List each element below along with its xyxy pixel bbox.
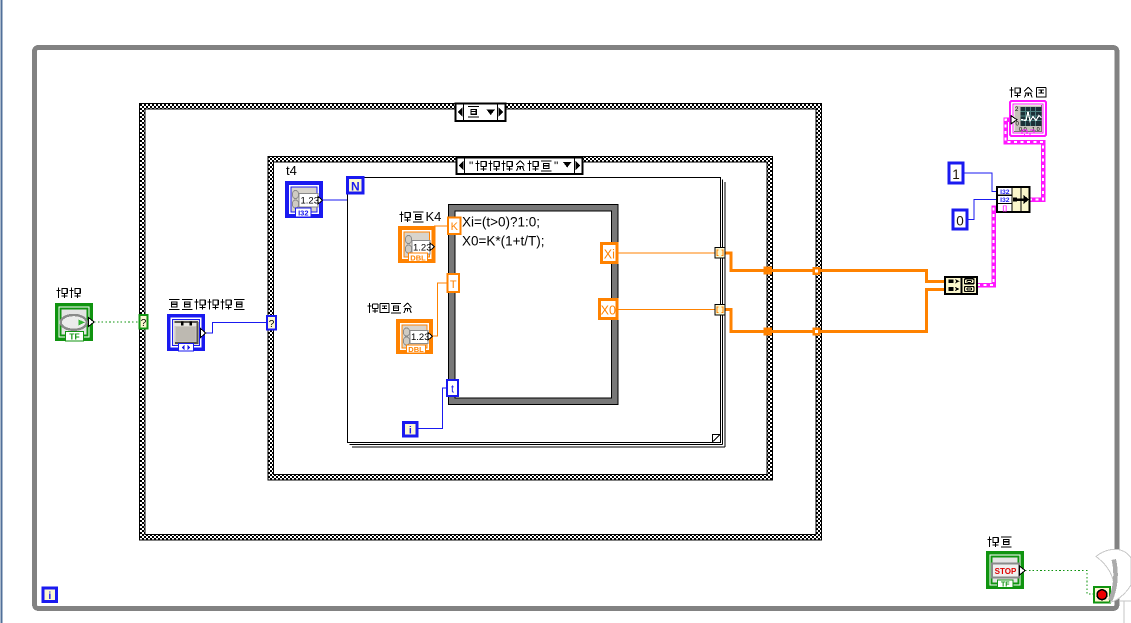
wire: X0 array to build node (orange thick) <box>724 290 945 332</box>
formula node input T <box>448 274 460 292</box>
wire: build node to bundle (magenta dashed) <box>977 208 997 286</box>
formula node output Xi <box>602 244 618 263</box>
formula node frame <box>448 204 619 405</box>
svg-text:K: K <box>451 221 459 233</box>
wire: Xi terminal to for loop tunnel (orange) <box>617 252 715 254</box>
svg-text:i: i <box>48 590 51 602</box>
tunnel [] on for loop (X0) <box>715 305 725 316</box>
wire: stop button to conditional terminal (green dotted) <box>1025 571 1094 595</box>
svg-text:i: i <box>409 425 412 437</box>
wire: Xi array to build node (orange thick) <box>724 253 945 282</box>
case selector label (true) <box>456 104 506 122</box>
svg-text:I32: I32 <box>298 209 308 218</box>
numeric control t4 (I32) <box>285 181 323 218</box>
while loop conditional terminal (stop if true) <box>1094 587 1110 603</box>
svg-text:0: 0 <box>956 214 964 229</box>
svg-text:": " <box>554 159 558 173</box>
boolean control run <box>55 303 94 342</box>
build array node <box>945 277 977 294</box>
for loop iteration terminal i <box>404 423 418 437</box>
while loop iteration terminal i <box>43 588 57 602</box>
label gain K4 <box>400 209 442 224</box>
constant 0 <box>953 210 967 229</box>
wire: constant 1 to bundle (blue) <box>963 173 997 192</box>
formula node code text <box>462 215 545 249</box>
svg-text:[]: [] <box>1003 205 1008 212</box>
for loop count terminal N <box>348 178 364 194</box>
selector tunnel ? on inner case <box>267 316 276 330</box>
svg-text:1.23: 1.23 <box>413 243 432 254</box>
svg-text:t4: t4 <box>286 163 297 178</box>
for loop folded corner <box>713 435 721 443</box>
formula node input t <box>447 380 458 396</box>
wire: X0 terminal to for loop tunnel (orange) <box>617 309 715 311</box>
numeric control gain K4 (DBL) <box>398 226 436 263</box>
svg-text:1.23: 1.23 <box>301 196 320 207</box>
bundle node <box>997 187 1030 212</box>
tunnel [] on for loop (Xi) <box>715 248 725 259</box>
wire: enum control to inner case tunnel (blue) <box>206 323 268 334</box>
svg-text:Xi: Xi <box>604 248 615 262</box>
formula node output X0 <box>600 300 618 319</box>
window corner page curl <box>1096 549 1131 623</box>
svg-text:?: ? <box>269 319 275 330</box>
svg-text:STOP: STOP <box>995 567 1017 576</box>
wire: gain K4 to K terminal (orange) <box>434 225 448 227</box>
wire: time constant to T terminal (orange) <box>433 283 448 336</box>
svg-text:Xi=(t>0)?1:0;: Xi=(t>0)?1:0; <box>462 215 540 230</box>
wire: i terminal to t terminal (blue) <box>417 388 447 429</box>
enum control typical linear element <box>167 314 206 351</box>
window left edge line <box>1 0 3 623</box>
selector tunnel ? on outer case <box>140 315 148 329</box>
wire: t4 to for loop N border (blue) <box>323 199 348 201</box>
for loop frame <box>348 178 726 448</box>
tunnel solid on inner case (Xi) <box>764 267 773 275</box>
svg-text:N: N <box>351 180 360 194</box>
svg-text:1.23: 1.23 <box>411 332 430 343</box>
svg-text:DBL: DBL <box>408 345 424 354</box>
tunnel hollow on outer case (X0) <box>813 328 821 336</box>
wire: bundle to waveform graph (magenta dashed) <box>1006 120 1044 200</box>
case structure outer (true case) border <box>139 103 822 541</box>
label waveform graph <box>1010 87 1046 97</box>
svg-text:t: t <box>451 384 454 396</box>
wire: run button to outer case tunnel (green dotted) <box>94 321 139 323</box>
wire: constant 0 to bundle (blue) <box>967 200 997 220</box>
svg-text:TF: TF <box>1001 582 1010 589</box>
svg-text:I32: I32 <box>1000 189 1010 196</box>
svg-text:T: T <box>450 279 457 291</box>
numeric control time constant (DBL) <box>396 319 433 354</box>
constant 1 <box>949 163 963 183</box>
svg-text:": " <box>469 159 473 173</box>
label enum control <box>169 299 244 309</box>
formula node input K <box>448 218 461 235</box>
svg-text:K4: K4 <box>426 209 442 224</box>
waveform graph terminal <box>1010 101 1046 136</box>
boolean control stop <box>986 551 1025 589</box>
svg-text:DBL: DBL <box>410 254 426 263</box>
svg-text:1: 1 <box>952 167 960 182</box>
svg-text:TF: TF <box>69 332 79 342</box>
tunnel solid on inner case (X0) <box>764 328 773 336</box>
case structure inner (linear element case) border <box>268 156 774 481</box>
svg-text:?: ? <box>141 318 147 329</box>
svg-text:X0=K*(1+t/T);: X0=K*(1+t/T); <box>462 234 545 249</box>
tunnel hollow on outer case (Xi) <box>813 267 821 275</box>
label time constant <box>368 303 412 313</box>
case selector label (proportional-integral) <box>457 158 583 175</box>
svg-text:X0: X0 <box>601 304 616 318</box>
svg-text:I32: I32 <box>1000 197 1010 204</box>
label stop <box>988 537 1012 547</box>
label run <box>57 288 81 298</box>
